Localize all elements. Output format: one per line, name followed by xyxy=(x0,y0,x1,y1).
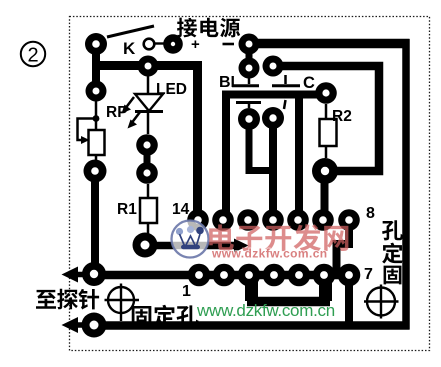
resistor R2 xyxy=(320,104,337,158)
wire: PA to PG vertical xyxy=(92,44,100,91)
wire: contact to plus pad xyxy=(155,42,166,44)
pad IC pin 5 xyxy=(288,264,311,287)
pad plus xyxy=(163,34,183,54)
wire: PJ down to probe pad xyxy=(91,171,99,274)
pad PH xyxy=(136,134,158,156)
buzzer BL plates xyxy=(232,78,261,108)
resistor R1 xyxy=(140,184,157,234)
svg-text:RP: RP xyxy=(106,104,128,121)
pad IC pin 3 xyxy=(238,264,261,287)
figure number 2 circled xyxy=(21,42,45,67)
capacitor C plate xyxy=(272,75,300,109)
wire: pin8 elbow to pin6 xyxy=(337,221,350,271)
svg-text:+: + xyxy=(191,36,200,53)
pad PA xyxy=(85,33,107,55)
wire: PM down and over xyxy=(249,119,273,171)
svg-text:BL: BL xyxy=(219,74,241,91)
pad IC pin 10 xyxy=(287,209,309,231)
watermark red site name xyxy=(209,224,348,260)
potentiometer RP xyxy=(78,95,105,162)
svg-text:C: C xyxy=(303,74,315,92)
switch K contact circle xyxy=(144,39,155,50)
pad PQ probe xyxy=(82,262,106,286)
pad IC pin 14 xyxy=(187,209,209,231)
wire: U link pin3 to pin6 xyxy=(245,275,258,301)
wire: PG branch to PF and down to pin14 xyxy=(92,66,198,221)
label minus xyxy=(223,43,235,46)
pad IC pin 12 xyxy=(237,209,259,231)
pad PN xyxy=(262,107,284,129)
mounting hole right xyxy=(364,285,399,319)
pad IC pin 2 xyxy=(213,264,236,287)
switch K lever xyxy=(107,26,154,37)
svg-text:14: 14 xyxy=(172,201,190,218)
pad IC pin 4 xyxy=(263,264,286,287)
mounting hole left xyxy=(105,284,140,322)
pad IC pin 13 xyxy=(212,209,234,231)
svg-text:8: 8 xyxy=(366,205,375,222)
wire: PC to PD stub xyxy=(246,44,253,68)
svg-text:R1: R1 xyxy=(117,201,137,218)
pad PG xyxy=(86,81,107,102)
wire: PE right, down, to PL xyxy=(273,66,379,171)
label 至探针 (to probe) xyxy=(36,290,56,309)
label 固定孔 bottom (mounting hole) xyxy=(132,306,152,327)
watermark logo xyxy=(172,221,209,258)
wire: pin7 drop to bottom rail xyxy=(345,275,353,325)
pad PD xyxy=(239,58,260,79)
label 固定孔 right vertical xyxy=(382,220,403,240)
svg-text:LED: LED xyxy=(156,81,187,98)
wire: PH to PI stub xyxy=(144,145,151,173)
pad R1 bottom xyxy=(133,233,158,258)
wire: top bus y94 with legs to pin13 and pin10 xyxy=(222,91,326,99)
wire: minus rail top/right/bottom loop xyxy=(249,39,410,49)
pad PE xyxy=(263,56,284,77)
board outline (dashed) xyxy=(70,17,430,351)
pad R2 top xyxy=(315,82,337,104)
wire: probe arrow lower xyxy=(77,322,96,328)
svg-text:K: K xyxy=(123,39,136,58)
pad PF xyxy=(138,56,159,77)
wire: probe arrow upper xyxy=(77,272,96,278)
pad IC pin 11 xyxy=(262,209,284,231)
wire: R1 pad arrow to IC xyxy=(145,242,236,250)
pad IC pin 1 xyxy=(188,264,211,287)
pad IC pin 6 xyxy=(313,264,336,287)
pad PJ xyxy=(84,160,107,183)
wire: bottom pin bus xyxy=(94,271,349,280)
pad PC minus xyxy=(239,34,260,55)
pad PI xyxy=(136,162,158,184)
pad PR probe xyxy=(82,313,107,338)
svg-text:2: 2 xyxy=(27,45,38,67)
pad R2 bottom xyxy=(312,158,338,184)
svg-text:7: 7 xyxy=(364,266,373,283)
wire: PL to pin9 xyxy=(321,171,329,220)
LED D1 xyxy=(122,70,164,134)
svg-text:R2: R2 xyxy=(332,108,352,125)
wire: PN down to pin11 xyxy=(269,118,277,220)
pad IC pin 7 xyxy=(338,264,361,287)
pad PM xyxy=(238,108,260,130)
pad IC pin 8 xyxy=(338,209,360,231)
pad IC pin 9 xyxy=(312,209,334,231)
svg-text:www.dzkfw.com.cn: www.dzkfw.com.cn xyxy=(211,247,328,261)
label 接电源 (connect power) xyxy=(177,18,197,38)
svg-text:1: 1 xyxy=(182,283,191,300)
svg-text:www.dzkfw.com.cn: www.dzkfw.com.cn xyxy=(196,301,335,320)
